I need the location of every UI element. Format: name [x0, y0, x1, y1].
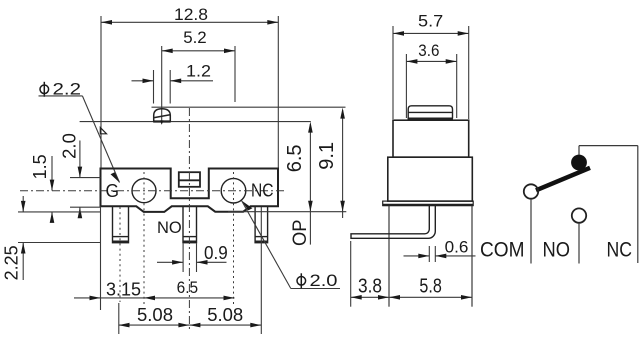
svg-text:1.2: 1.2 — [186, 62, 211, 81]
svg-text:9.1: 9.1 — [316, 142, 338, 170]
dimension 5.08 left — [119, 324, 190, 326]
lower housing (side view) — [388, 157, 473, 201]
pin 2 (middle, NO) — [183, 206, 197, 242]
wire NC right — [637, 146, 639, 263]
button dome — [153, 109, 171, 122]
svg-text:NC: NC — [251, 181, 274, 201]
svg-text:2.0: 2.0 — [59, 133, 80, 159]
dimension 1.2 — [132, 70, 214, 104]
dimension 12.8 — [101, 16, 278, 168]
dimension 6.5 (hole spacing) — [144, 297, 235, 299]
button cap (side view) — [408, 106, 454, 119]
label phi2.0 with leader — [242, 201, 253, 211]
dimension 3.15 — [74, 297, 144, 299]
foot / extension left — [388, 206, 390, 307]
svg-text:0.9: 0.9 — [204, 243, 228, 263]
free position line (button top) — [152, 106, 346, 108]
centerline pin 3 — [260, 207, 262, 334]
svg-text:NO: NO — [543, 239, 571, 262]
lever — [536, 168, 590, 191]
plunger centerline tick — [160, 120, 164, 124]
dimension 5.7 — [393, 26, 469, 119]
svg-text:5.8: 5.8 — [419, 276, 441, 298]
dimension 5.8 — [389, 296, 472, 298]
centerline horizontal through holes — [20, 190, 287, 192]
pin 1 (left) — [113, 206, 129, 242]
svg-text:3.8: 3.8 — [358, 276, 382, 298]
svg-text:NO: NO — [157, 219, 182, 237]
dimension 5.2 — [162, 46, 235, 121]
COM terminal circle — [524, 184, 538, 198]
hole G — [132, 179, 156, 203]
svg-text:3.6: 3.6 — [418, 41, 439, 60]
NO contact window — [179, 172, 200, 187]
svg-text:NC: NC — [607, 239, 633, 262]
svg-text:1.5: 1.5 — [30, 154, 50, 179]
L-shaped terminal pin (side view) — [351, 206, 435, 239]
NC contact dot — [571, 155, 587, 171]
svg-text:3.15: 3.15 — [106, 280, 141, 300]
svg-text:0.6: 0.6 — [445, 237, 469, 256]
wire COM — [530, 199, 532, 264]
dimension 0.9 — [157, 244, 227, 273]
svg-text:OP: OP — [290, 220, 311, 246]
extension plate left edge down — [100, 206, 102, 310]
centerline pin 1 — [119, 207, 121, 302]
foot / extension right — [471, 206, 473, 307]
pin 3 (right) — [255, 206, 268, 242]
centerline vertical middle — [188, 108, 190, 332]
small flag on leader — [100, 128, 106, 134]
svg-text:6.5: 6.5 — [284, 144, 306, 172]
wire NO — [578, 223, 580, 264]
dimension 2.0 — [70, 141, 101, 219]
wire top — [579, 145, 638, 147]
svg-text:COM: COM — [480, 239, 525, 262]
svg-text:5.08: 5.08 — [207, 304, 243, 325]
centerline hole NC — [233, 172, 235, 305]
svg-text:G: G — [106, 181, 120, 201]
dimension 1.5 — [51, 156, 53, 222]
dimension 9.1 (vertical) — [342, 110, 344, 218]
dimension 2.25 — [18, 196, 101, 280]
base flange — [383, 201, 474, 206]
dimension 5.08 right — [189, 324, 261, 326]
extension line plate bottom right — [228, 211, 346, 213]
button base line — [80, 121, 311, 123]
hole NC — [221, 178, 246, 203]
centerline hole G — [143, 172, 145, 305]
svg-text:5.08: 5.08 — [137, 304, 173, 325]
label phi2.2 with leader — [40, 82, 49, 97]
svg-text:2.25: 2.25 — [2, 245, 22, 280]
svg-text:2.0: 2.0 — [310, 271, 338, 290]
switch body outline (plate with notch) — [101, 169, 279, 212]
svg-text:5.7: 5.7 — [418, 11, 443, 30]
upper housing (side view) — [393, 120, 469, 157]
dimension 3.6 — [406, 54, 456, 118]
extension pin arm left — [350, 241, 352, 307]
svg-text:12.8: 12.8 — [174, 5, 208, 24]
dimension 3.8 — [351, 296, 389, 298]
dimension 6.5 (vertical OP side) — [309, 124, 311, 245]
NO terminal circle — [572, 208, 586, 222]
svg-text:6.5: 6.5 — [177, 278, 199, 297]
wire stub to NC contact — [578, 146, 580, 156]
dimension 0.6 — [404, 246, 476, 262]
svg-text:5.2: 5.2 — [183, 28, 207, 47]
